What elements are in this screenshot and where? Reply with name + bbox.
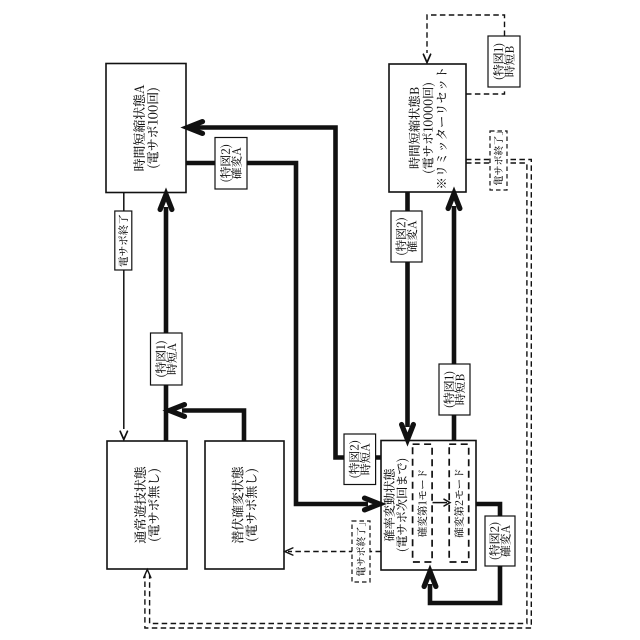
state box tsujo-yugi (normal play) <box>107 441 187 569</box>
label tokuzu2 kakuhen A (below B) text <box>395 218 417 255</box>
thick self-loop kakuritsu-hendo (tokuzu2 kakuhen A) <box>430 504 500 603</box>
state box A: jitan-tanshuku A (den-sapo 100) <box>106 64 186 193</box>
state box kakuritsu-hendo text <box>384 459 409 551</box>
thick arrow kakuritsu-hendo to A (tokuzu2 jitan A) <box>190 128 381 458</box>
dashed arrow head into tsujo-yugi bottom <box>144 570 151 578</box>
label den-sapo-end dashed (right of B) text <box>494 132 503 185</box>
label tokuzu1 jitan A box <box>151 333 183 385</box>
thick arrow tsujo-yugi to A (tokuzu1 jitan A) <box>164 207 169 441</box>
label tokuzu1 jitan B (top right) text <box>493 44 515 79</box>
state box kakuritsu-hendo <box>381 441 476 571</box>
thick arrow kakuritsu-hendo to B (tokuzu1 jitan B) <box>452 206 457 441</box>
label tokuzu1 jitan A text <box>155 341 177 376</box>
state box tsujo-yugi text <box>134 467 161 543</box>
label tokuzu2 kakuhen A (on A outgoing) text <box>220 145 242 182</box>
label tokuzu2 jitan A box <box>344 434 376 485</box>
dashed self-loop B right segment <box>466 88 505 94</box>
dashed arrow kakuritsu-hendo to senpuku (den-sapo end) <box>288 551 381 553</box>
mode1 to mode2 small arrow <box>433 502 448 504</box>
label tokuzu1 jitan B (lower) text <box>443 372 465 407</box>
dashed line B to tsujo-yugi outer <box>145 160 531 629</box>
state box senpuku-kakuhen text <box>232 467 259 543</box>
state box B: jitan-tanshuku B (den-sapo 10000, limiter reset) <box>389 64 466 192</box>
label den-sapo-end dashed (left of kakuritsu) text <box>356 523 365 576</box>
label den-sapo-end (A to tsujo) text <box>118 215 128 267</box>
label tokuzu1 jitan B (top right) box <box>488 36 520 87</box>
label tokuzu2 jitan A text <box>349 441 371 478</box>
inner mode 2 text <box>454 470 464 538</box>
state box A text <box>133 85 160 171</box>
thick arrow A to kakuritsu-hendo (tokuzu2 kakuhen A) <box>186 163 368 504</box>
label tokuzu2 kakuhen A (self loop) box <box>485 516 515 566</box>
dashed self-loop B top segment with arrow <box>427 15 505 53</box>
label tokuzu2 kakuhen A (below B) box <box>391 211 422 262</box>
label den-sapo-end dashed (left of kakuritsu) box <box>352 521 370 582</box>
label tokuzu2 kakuhen A (on A outgoing) box <box>215 138 247 190</box>
label den-sapo-end dashed (right of B) box <box>490 131 507 190</box>
thin arrow A to tsujo-yugi (den-sapo end) <box>123 193 125 430</box>
inner dashed box kakuhen mode 1 <box>413 444 433 562</box>
state box B text <box>409 69 447 188</box>
thick arrow B to kakuritsu-hendo (tokuzu2 kakuhen A) <box>405 192 410 427</box>
inner mode 1 text <box>417 470 427 537</box>
label den-sapo-end (A to tsujo) box <box>115 211 132 270</box>
thick arrow senpuku to junction (tokuzu1 jitan A) <box>182 411 244 442</box>
inner dashed box kakuhen mode 2 <box>449 444 469 562</box>
label tokuzu1 jitan B (lower) box <box>439 364 470 415</box>
label tokuzu2 kakuhen A (self loop) text <box>489 523 511 560</box>
state box senpuku-kakuhen <box>205 441 284 569</box>
dashed line B to tsujo-yugi inner <box>150 163 527 624</box>
